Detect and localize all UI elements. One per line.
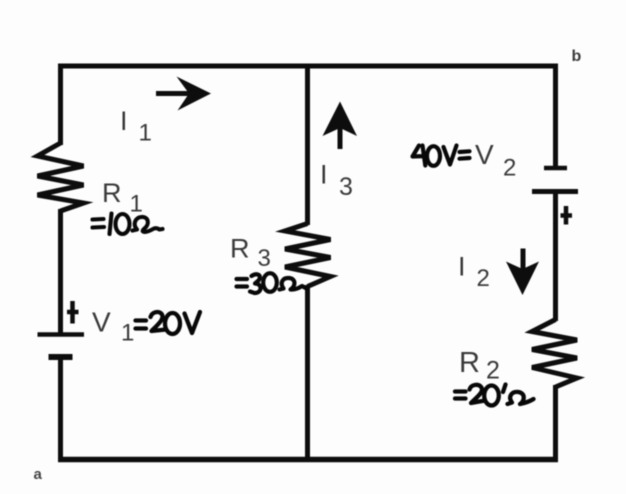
current arrow I2	[506, 249, 539, 296]
label V1	[92, 307, 134, 347]
svg-text:2: 2	[477, 265, 490, 292]
current arrow I3	[323, 102, 358, 150]
svg-text:V: V	[92, 307, 111, 338]
svg-text:V: V	[475, 139, 494, 170]
wire middle lower	[305, 285, 310, 460]
wire right middle	[553, 192, 558, 322]
svg-text:a: a	[34, 466, 43, 483]
wire bottom	[58, 457, 558, 463]
label I1	[120, 106, 152, 147]
battery V2 plus sign	[561, 206, 573, 225]
wire right lower	[553, 385, 558, 462]
battery V1 plus sign	[67, 301, 79, 324]
resistor R2	[532, 320, 577, 388]
wire top	[58, 64, 558, 69]
resistor R3	[285, 224, 331, 287]
svg-text:1: 1	[130, 191, 143, 218]
value R3 handwritten =30ohm	[237, 273, 307, 293]
svg-text:R: R	[230, 234, 250, 264]
label I3	[320, 160, 353, 202]
svg-text:I: I	[320, 160, 328, 190]
battery V2 plate short	[544, 166, 567, 171]
wire middle upper	[305, 64, 310, 225]
svg-text:3: 3	[339, 173, 353, 201]
label R1	[102, 178, 143, 218]
svg-text:2: 2	[486, 357, 500, 385]
resistor R1	[38, 143, 84, 211]
wire right upper	[553, 64, 558, 166]
svg-text:2: 2	[503, 155, 516, 182]
label R2	[459, 347, 500, 385]
svg-text:R: R	[459, 347, 480, 379]
current arrow I1	[156, 77, 211, 111]
svg-text:b: b	[572, 48, 582, 65]
label R3	[230, 234, 271, 273]
svg-text:I: I	[120, 106, 128, 136]
svg-text:I: I	[458, 252, 466, 282]
battery V1 plate long	[38, 332, 85, 337]
wire left lower	[58, 357, 63, 462]
svg-text:1: 1	[139, 120, 152, 147]
svg-text:1: 1	[121, 320, 134, 347]
wire left middle	[58, 209, 63, 334]
value V1 handwritten =20V	[136, 312, 201, 334]
value R1 handwritten =10ohm	[93, 214, 163, 235]
svg-text:R: R	[102, 178, 122, 208]
label I2	[458, 252, 490, 293]
svg-text:3: 3	[258, 245, 271, 272]
value V2 handwritten 40V=	[413, 146, 470, 166]
label V2 printed part	[475, 139, 516, 182]
wire left upper	[58, 64, 63, 145]
battery V2 plate long	[532, 189, 578, 194]
value R2 handwritten =20ohm	[455, 385, 534, 406]
battery V1 plate short	[49, 354, 73, 360]
